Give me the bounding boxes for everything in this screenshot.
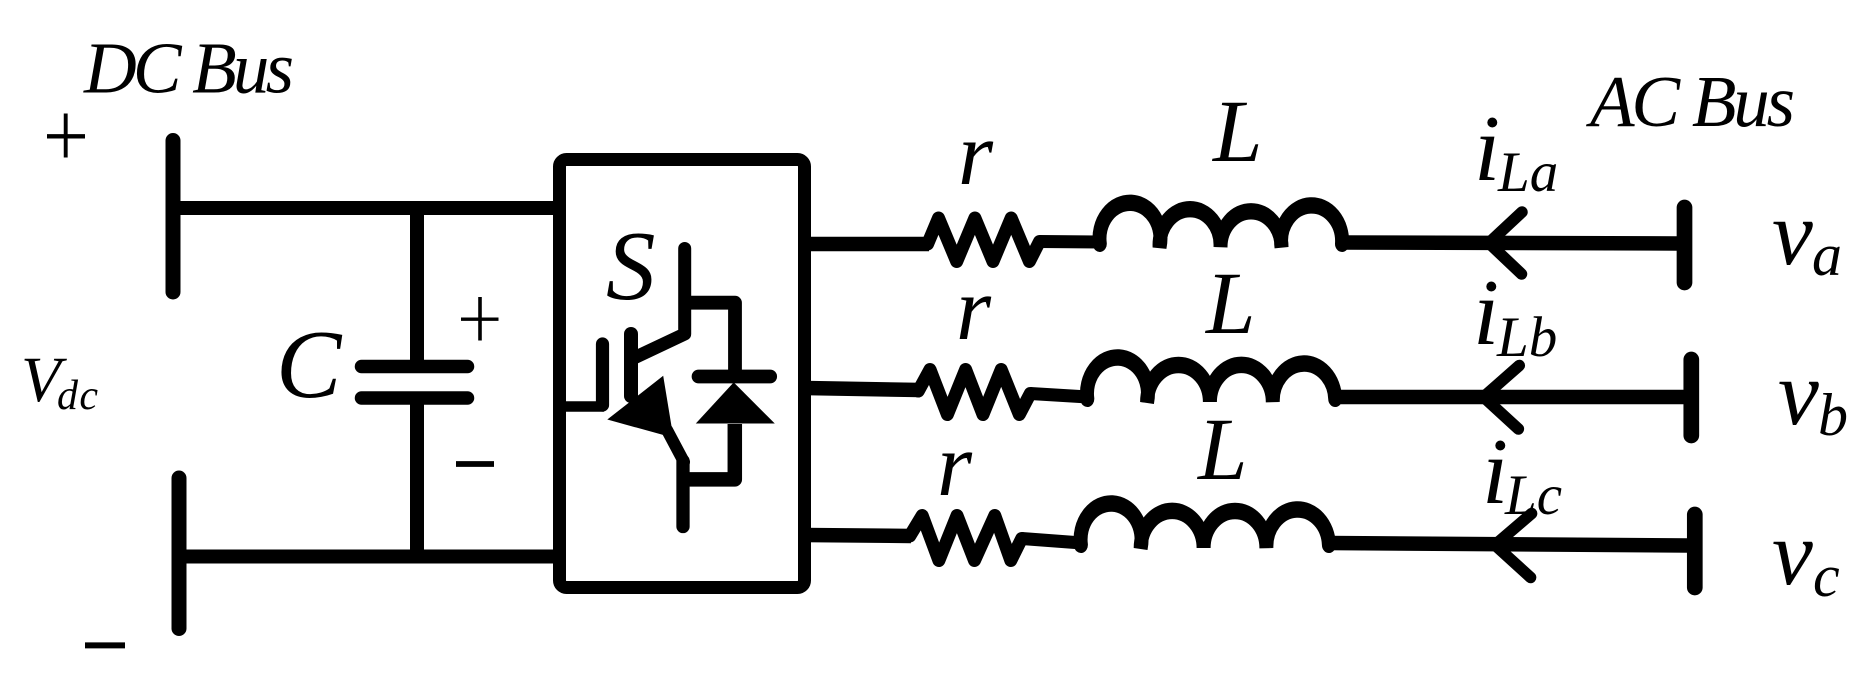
wire: DC negative rail — [182, 550, 562, 564]
AC bus bar phase a — [1677, 208, 1693, 283]
svg-text:DC Bus: DC Bus — [83, 28, 294, 109]
svg-text:r: r — [958, 105, 994, 204]
svg-text:i: i — [1473, 261, 1499, 365]
current arrow i_Lc — [1495, 514, 1532, 578]
current arrow i_Lb — [1484, 366, 1520, 430]
IGBT gate bar — [596, 344, 609, 405]
DC bus positive bar — [166, 141, 181, 293]
capacitor C — [362, 208, 468, 556]
svg-text:AC Bus: AC Bus — [1586, 61, 1795, 142]
resistor r phase B — [918, 370, 1030, 415]
inductor L phase A — [1099, 203, 1342, 247]
svg-text:Lc: Lc — [1504, 464, 1562, 527]
svg-text:L: L — [1196, 401, 1248, 499]
wire: phase C to AC bus — [1329, 543, 1688, 546]
IGBT bottom elbow from diode anode — [689, 424, 735, 479]
svg-text:b: b — [1818, 382, 1848, 448]
IGBT emitter arrow head — [607, 376, 673, 438]
svg-text:La: La — [1497, 141, 1558, 204]
svg-text:Lb: Lb — [1496, 306, 1557, 369]
IGBT gate lead — [565, 401, 604, 412]
svg-text:S: S — [606, 212, 656, 321]
svg-text:c: c — [1813, 543, 1840, 609]
inductor L phase B — [1087, 357, 1335, 402]
svg-text:dc: dc — [57, 373, 98, 419]
svg-text:L: L — [1211, 83, 1263, 181]
IGBT Q1 collector lead — [635, 249, 685, 358]
wire: phase A to AC bus — [1342, 243, 1678, 244]
svg-text:a: a — [1812, 222, 1842, 288]
wire: DC positive rail — [176, 201, 562, 215]
wire: phase B to AC bus — [1336, 390, 1685, 405]
IGBT emitter lower diagonal — [667, 430, 684, 462]
diode D1 triangle — [696, 382, 775, 423]
AC bus bar phase c — [1687, 515, 1703, 588]
current arrow i_La — [1489, 212, 1522, 274]
wire: phase B between r and L — [1030, 394, 1088, 398]
AC bus bar phase b — [1683, 360, 1699, 436]
wire: phase A from converter — [805, 237, 929, 252]
wire: phase A between r and L — [1040, 235, 1101, 249]
resistor r phase A — [928, 218, 1040, 262]
converter box U1 — [560, 160, 805, 588]
minus terminal of DC bus — [85, 642, 125, 648]
DC bus negative bar — [172, 478, 187, 629]
svg-text:i: i — [1474, 97, 1500, 201]
capacitor plus sign — [461, 297, 499, 341]
capacitor minus sign — [456, 461, 494, 467]
wire: phase C from converter — [805, 535, 911, 536]
svg-text:v: v — [1772, 502, 1813, 604]
inductor L phase C — [1081, 503, 1329, 548]
svg-text:r: r — [956, 260, 992, 359]
IGBT emitter lead — [676, 461, 689, 527]
svg-text:L: L — [1204, 255, 1256, 353]
plus terminal of DC bus — [47, 114, 85, 158]
svg-text:v: v — [1772, 182, 1813, 284]
IGBT body bar — [624, 334, 638, 396]
wire: phase B from converter — [805, 388, 920, 390]
svg-text:C: C — [276, 311, 343, 419]
svg-text:r: r — [937, 416, 973, 515]
svg-text:v: v — [1778, 342, 1819, 444]
wire: phase C between r and L — [1022, 539, 1082, 544]
resistor r phase C — [910, 516, 1022, 561]
diode D1 cathode bar — [699, 370, 771, 384]
IGBT top elbow to diode cathode — [685, 303, 735, 377]
